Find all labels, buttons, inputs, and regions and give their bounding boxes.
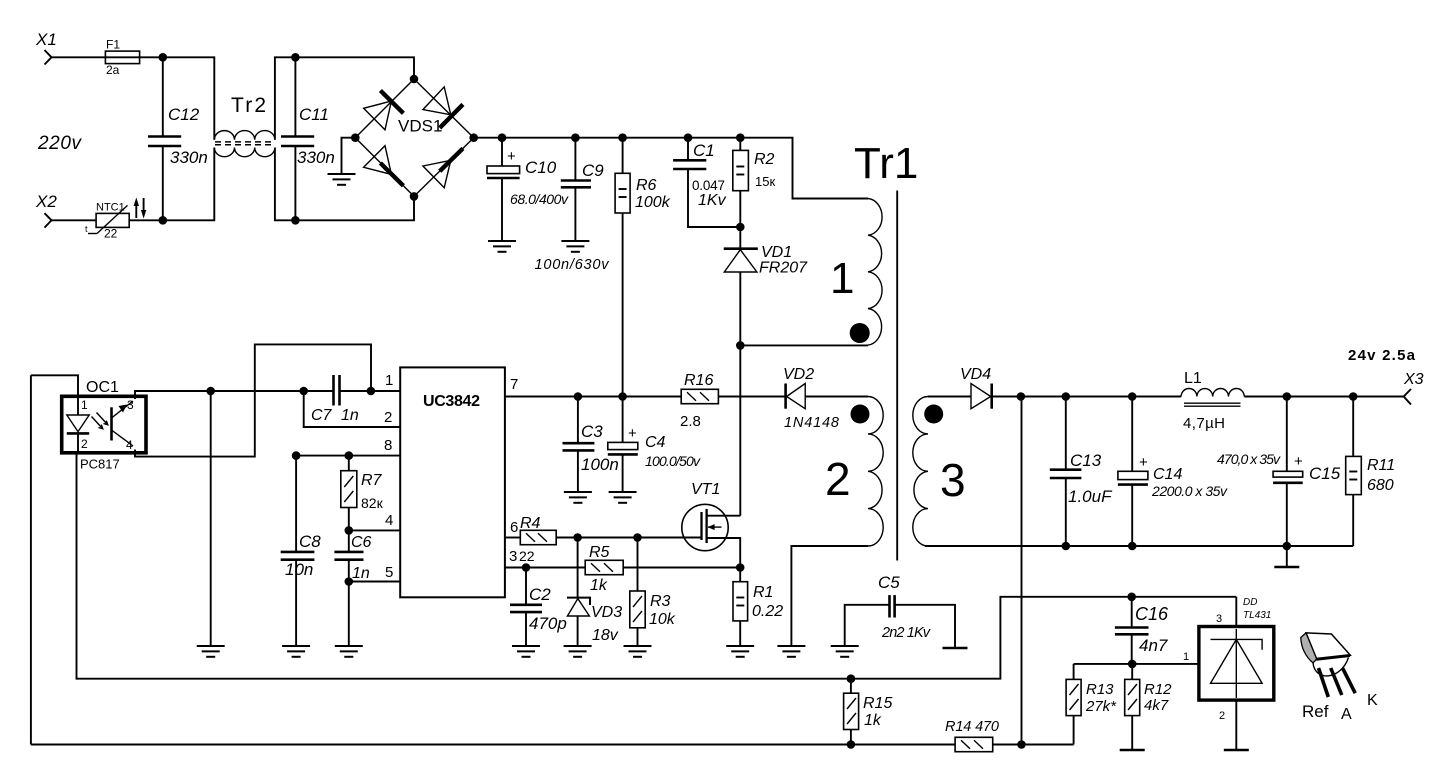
node junction bottom-left — [159, 216, 168, 225]
svg-text:4,7µH: 4,7µH — [1183, 415, 1225, 432]
node gate VD3 — [573, 533, 582, 542]
svg-text:+: + — [1139, 454, 1148, 471]
wire rail R6-C1 — [623, 137, 688, 139]
resistor R5 1k — [585, 544, 623, 594]
svg-text:2n2 1Kv: 2n2 1Kv — [881, 625, 931, 641]
node rail R6 — [618, 133, 627, 142]
svg-text:C14: C14 — [1153, 466, 1182, 483]
chassis ground (C5 secondary side) — [943, 647, 968, 649]
svg-text:18v: 18v — [592, 627, 619, 644]
svg-text:470p: 470p — [529, 614, 567, 633]
svg-text:DD: DD — [1243, 597, 1257, 608]
arrow down (mains variation mark) — [141, 198, 146, 219]
chassis ground (TL431) — [1224, 749, 1249, 751]
svg-text:R14 470: R14 470 — [945, 719, 999, 735]
thermistor NTC1 22 — [85, 202, 129, 241]
ground (R1) — [726, 646, 754, 657]
node pin8 R7 — [345, 451, 354, 460]
svg-text:R6: R6 — [636, 177, 657, 194]
wire bottom feedback line — [31, 744, 955, 746]
svg-text:VD2: VD2 — [783, 366, 814, 383]
svg-text:C5: C5 — [878, 573, 900, 592]
wire NTC to junction — [129, 219, 163, 221]
fuse F1 2a — [105, 38, 139, 78]
node C11 top — [291, 53, 300, 62]
svg-text:R15: R15 — [863, 695, 892, 712]
svg-text:F1: F1 — [106, 38, 120, 52]
ground (FB divider) — [197, 646, 225, 657]
ground (bridge left node) — [328, 174, 356, 185]
resistor R6 100k — [615, 138, 671, 213]
transformer Tr1 winding 2 — [868, 397, 883, 547]
svg-text:C4: C4 — [645, 434, 666, 451]
svg-text:VDS1: VDS1 — [398, 117, 442, 136]
svg-text:5: 5 — [385, 564, 393, 581]
bridge diode top-left — [364, 91, 404, 130]
node bridge right — [469, 133, 478, 142]
svg-text:FR207: FR207 — [759, 260, 808, 277]
svg-text:C10: C10 — [525, 158, 557, 177]
svg-text:R7: R7 — [361, 472, 383, 489]
OC1 phototransistor — [112, 401, 134, 446]
wire opto line to TL431 cathode — [851, 597, 1236, 679]
bridge diode bottom-left — [364, 146, 404, 186]
svg-text:100n: 100n — [581, 455, 619, 474]
winding 1 phasing dot — [850, 323, 870, 343]
diode VD1 FR207 — [724, 227, 808, 345]
svg-text:1: 1 — [830, 254, 854, 303]
svg-text:22: 22 — [519, 548, 535, 564]
node bottom rail C13 — [1062, 542, 1071, 551]
svg-text:10n: 10n — [285, 560, 313, 579]
optocoupler OC1 PC817 body — [62, 379, 146, 472]
svg-text:0.22: 0.22 — [752, 603, 783, 620]
node C7 right / pin1 — [367, 387, 376, 396]
node gate R3 — [633, 533, 642, 542]
wire pin5 line — [349, 581, 400, 583]
svg-text:R16: R16 — [684, 372, 713, 389]
svg-text:R2: R2 — [754, 151, 775, 168]
svg-text:C13: C13 — [1070, 451, 1102, 470]
node rail C9 — [571, 133, 580, 142]
node output rail VD4 — [1017, 392, 1026, 401]
node pin8 C8 — [292, 451, 301, 460]
svg-text:4: 4 — [385, 512, 393, 529]
svg-text:1Kv: 1Kv — [698, 192, 727, 209]
node feedback divider — [1017, 740, 1026, 749]
node junction top-left — [159, 53, 168, 62]
svg-text:C8: C8 — [299, 532, 321, 551]
wire Tr2 bottom right — [275, 148, 296, 221]
svg-text:2: 2 — [1219, 710, 1225, 722]
svg-text:27k*: 27k* — [1085, 698, 1117, 715]
svg-text:330n: 330n — [297, 148, 335, 167]
node rail C14 — [1128, 392, 1137, 401]
svg-text:K: K — [1367, 692, 1378, 709]
svg-text:2a: 2a — [106, 63, 120, 77]
svg-text:100k: 100k — [635, 194, 671, 211]
svg-text:1k: 1k — [864, 712, 882, 729]
wire Tr2 top right — [275, 57, 296, 140]
wire pin3 line — [505, 567, 585, 569]
wire drain vertical — [739, 345, 741, 515]
svg-text:15к: 15к — [755, 174, 775, 189]
node pin5 — [345, 577, 354, 586]
resistor R12 4k7 — [1125, 664, 1172, 749]
svg-text:VD3: VD3 — [591, 604, 622, 621]
node winding1 bottom — [736, 341, 745, 350]
capacitor C15 470,0x35v — [1217, 397, 1341, 547]
svg-text:C1: C1 — [693, 141, 715, 160]
svg-text:+: + — [507, 148, 516, 165]
node bridge left — [351, 133, 360, 142]
wire pin5 to ground — [348, 582, 350, 646]
TO-92 package drawing — [1301, 633, 1378, 723]
wire OC1 pin1 from left rail — [31, 375, 78, 396]
svg-text:100n/630v: 100n/630v — [535, 257, 610, 273]
svg-text:470,0 x 35v: 470,0 x 35v — [1217, 451, 1281, 467]
capacitor C3 100n — [563, 397, 619, 492]
resistor R15 1k — [844, 674, 893, 744]
svg-text:UC3842: UC3842 — [423, 393, 480, 410]
arrow up (mains variation mark) — [134, 198, 139, 219]
capacitor C14 2200.0x35v — [1118, 397, 1228, 547]
svg-text:68.0/400v: 68.0/400v — [510, 191, 569, 207]
svg-text:22: 22 — [104, 227, 118, 241]
svg-text:1.0uF: 1.0uF — [1068, 487, 1113, 506]
wire C11 to bridge bottom — [295, 196, 414, 220]
resistor R3 10k — [630, 538, 676, 646]
wire R5 to R1 node — [623, 567, 740, 569]
svg-text:+: + — [1294, 453, 1303, 470]
svg-text:VT1: VT1 — [691, 481, 720, 498]
node rail C10 — [498, 133, 507, 142]
node R15 bottom — [847, 740, 856, 749]
capacitor C10 68.0/400v — [487, 138, 569, 241]
wire pin4 line — [349, 529, 400, 531]
winding 3 phasing dot — [924, 405, 943, 424]
svg-text:1: 1 — [1183, 651, 1189, 663]
wire OC1 pin4 loop to pin1 — [135, 344, 371, 456]
svg-text:3: 3 — [509, 548, 517, 565]
svg-text:1: 1 — [385, 372, 393, 389]
wire X1 to fuse — [52, 56, 163, 58]
svg-text:3: 3 — [940, 454, 966, 506]
node rail C13 — [1062, 392, 1071, 401]
wire OC1 pin2 down — [77, 453, 851, 679]
svg-text:A: A — [1341, 706, 1352, 723]
wire pin6 line — [505, 537, 520, 539]
resistor R4 22 — [519, 515, 556, 564]
OC1 light arrows — [92, 413, 108, 429]
svg-text:4k7: 4k7 — [1144, 697, 1169, 714]
node pin7 C3 — [574, 392, 583, 401]
bridge diode bottom-right — [423, 148, 463, 187]
svg-text:2200.0 x 35v: 2200.0 x 35v — [1151, 483, 1228, 499]
wire X2 to NTC — [52, 219, 97, 221]
ground (pin5/C6) — [335, 646, 363, 657]
svg-text:R5: R5 — [589, 544, 610, 561]
ground (C5 primary side) — [831, 646, 859, 657]
node bridge top — [410, 75, 419, 84]
svg-text:Tr1: Tr1 — [854, 139, 918, 188]
svg-text:Tr2: Tr2 — [231, 94, 266, 117]
ground (winding 2) — [777, 646, 805, 657]
wire OC1 pin3 to UC3842 pin1 — [135, 391, 334, 399]
svg-text:1n: 1n — [341, 407, 359, 424]
svg-text:R12: R12 — [1144, 681, 1172, 698]
svg-text:1n: 1n — [352, 565, 370, 582]
node rail R2 — [736, 133, 745, 142]
inductor L1 4,7uH — [1181, 370, 1244, 432]
wire pin7 line — [505, 396, 681, 398]
node rail C15 — [1283, 392, 1292, 401]
node pin3 C2 — [522, 563, 531, 572]
svg-text:8: 8 — [384, 437, 392, 454]
wire TL431 anode to ground — [1235, 700, 1237, 749]
capacitor C6 1n — [334, 530, 371, 582]
capacitor C1 0.047 1Kv — [673, 138, 740, 227]
svg-text:Ref: Ref — [1302, 702, 1329, 721]
resistor R13 27k* — [1066, 664, 1117, 745]
svg-text:4n7: 4n7 — [1139, 636, 1168, 655]
svg-text:2: 2 — [825, 453, 851, 505]
resistor R14 470 — [945, 719, 999, 752]
wire bridge left to ground — [342, 138, 356, 174]
svg-text:NTC1: NTC1 — [96, 202, 125, 214]
node ref line R12 — [1128, 660, 1137, 669]
svg-text:3: 3 — [1216, 613, 1222, 625]
resistor R7 82k — [341, 456, 384, 531]
wire VD4 node feedback vertical — [1021, 397, 1023, 745]
svg-text:680: 680 — [1367, 477, 1394, 494]
node pin4 C6 — [345, 526, 354, 535]
ground (R3) — [624, 646, 652, 657]
svg-text:C3: C3 — [581, 422, 603, 441]
wire winding1 bottom — [740, 344, 868, 346]
node bridge bottom — [410, 192, 419, 201]
svg-text:C16: C16 — [1135, 604, 1169, 624]
ground (C10) — [488, 241, 516, 252]
wire winding2 bottom to ground — [791, 546, 868, 645]
wire rail C1-R2 — [688, 137, 740, 139]
wire rail to Tr1 winding1 — [740, 138, 868, 199]
zener VD3 18v — [567, 538, 622, 646]
capacitor C9 100n/630v — [535, 138, 610, 273]
wire TL431 ref line — [1074, 663, 1199, 665]
svg-text:+: + — [628, 425, 637, 442]
wire left feedback vertical — [30, 375, 32, 744]
diode VD4 — [928, 366, 1021, 409]
svg-text:OC1: OC1 — [86, 379, 119, 396]
svg-text:TL431: TL431 — [1243, 610, 1271, 621]
capacitor C11 330n — [281, 57, 335, 220]
svg-text:C2: C2 — [529, 585, 551, 604]
svg-text:82к: 82к — [361, 495, 384, 511]
svg-text:C12: C12 — [168, 105, 200, 124]
resistor R2 15k — [733, 138, 776, 227]
node C11 bottom — [291, 216, 300, 225]
resistor R1 0.22 — [733, 568, 783, 646]
wire rail C9-R6 — [575, 137, 622, 139]
ground (C4) — [609, 492, 637, 503]
wire pin2 loop — [304, 391, 401, 427]
choke Tr2 core — [215, 142, 274, 145]
svg-text:6: 6 — [510, 519, 518, 536]
choke Tr2 bottom winding — [214, 148, 275, 157]
wire output rail — [1021, 396, 1181, 398]
node R1 top — [736, 563, 745, 572]
svg-text:X2: X2 — [35, 192, 57, 211]
svg-text:10k: 10k — [649, 611, 676, 628]
svg-text:7: 7 — [510, 376, 518, 393]
svg-text:R11: R11 — [1367, 457, 1395, 474]
wire R6 down to pin7 line — [622, 213, 624, 397]
IC UC3842 — [384, 367, 518, 597]
wire C11 to bridge top — [295, 57, 414, 79]
wire rail L1 to X3 — [1244, 396, 1403, 398]
svg-text:C9: C9 — [582, 161, 604, 180]
node bottom rail C14 — [1128, 542, 1137, 551]
wire bottom to Tr2 — [163, 148, 215, 221]
capacitor C4 100.0/50v — [608, 397, 701, 492]
wire rail C10-C9 — [502, 137, 575, 139]
OC1 LED — [67, 396, 89, 453]
capacitor C2 470p — [510, 568, 567, 646]
svg-text:2: 2 — [81, 437, 88, 451]
svg-text:0.047: 0.047 — [692, 178, 725, 193]
svg-text:1k: 1k — [590, 577, 608, 594]
terminal X3 — [1403, 371, 1424, 405]
node bottom rail C15 — [1283, 542, 1292, 551]
wire R16 to VD2 — [718, 396, 785, 398]
transformer Tr1 winding 3 — [913, 397, 928, 547]
ground (C3) — [564, 492, 592, 503]
chassis ground (output) — [1274, 566, 1299, 568]
svg-text:C15: C15 — [1309, 464, 1341, 483]
svg-text:R3: R3 — [650, 593, 671, 610]
node rail C1 — [684, 133, 693, 142]
resistor R11 680 — [1346, 397, 1395, 547]
svg-text:C7: C7 — [311, 407, 333, 424]
IC DD TL431 — [1183, 597, 1274, 722]
bridge rectifier VDS1 frame — [355, 79, 473, 196]
ground (C2) — [512, 646, 540, 657]
wire R14 to node — [993, 744, 1074, 746]
node C16 top — [1127, 593, 1136, 602]
svg-text:R13: R13 — [1086, 681, 1114, 698]
node pin7 C4 — [618, 392, 627, 401]
capacitor C8 10n — [281, 456, 322, 645]
bridge diode top-right — [423, 87, 463, 128]
capacitor C7 1n — [311, 375, 400, 424]
transistor VT1 — [682, 481, 741, 568]
ground (C8) — [282, 646, 310, 657]
chassis ground (R12) — [1120, 749, 1145, 751]
transformer Tr1 core — [896, 191, 898, 561]
node C7 left — [299, 387, 308, 396]
transformer Tr1 winding 1 — [868, 199, 882, 346]
wire R4 to gate — [556, 537, 701, 539]
wire output bottom rail — [925, 545, 1353, 547]
wire bridge right to rail — [474, 137, 502, 139]
capacitor C13 1.0uF — [1050, 397, 1113, 547]
svg-text:VD1: VD1 — [761, 244, 792, 261]
node snubber top — [736, 223, 745, 232]
svg-text:1N4148: 1N4148 — [784, 415, 839, 431]
svg-text:C11: C11 — [299, 105, 329, 124]
node FB line left — [206, 387, 215, 396]
capacitor C16 4n7 — [1115, 597, 1169, 664]
svg-text:X3: X3 — [1403, 371, 1424, 388]
svg-text:L1: L1 — [1184, 370, 1202, 387]
svg-text:220v: 220v — [37, 133, 83, 154]
capacitor C12 330n — [148, 57, 208, 220]
svg-text:100.0/50v: 100.0/50v — [645, 453, 701, 469]
svg-text:X1: X1 — [35, 30, 57, 49]
capacitor C5 2n2 1Kv — [845, 573, 955, 647]
svg-text:1: 1 — [81, 398, 88, 412]
ground (C9) — [561, 241, 589, 252]
choke Tr2 top winding — [214, 131, 275, 140]
wire top to Tr2 — [163, 57, 215, 140]
winding 2 phasing dot — [851, 405, 870, 424]
wire C15 node to ground — [1286, 546, 1288, 566]
ground (VD3) — [564, 646, 592, 657]
svg-text:2: 2 — [384, 409, 392, 426]
svg-text:R4: R4 — [520, 515, 541, 532]
svg-text:R1: R1 — [753, 584, 773, 601]
node rail R11 — [1349, 392, 1358, 401]
resistor R16 2.8 — [680, 372, 718, 430]
svg-text:C6: C6 — [351, 534, 372, 551]
terminal X1 — [35, 30, 57, 65]
wire FB node to ground — [210, 391, 212, 645]
wire pin8 line — [296, 455, 400, 457]
svg-text:PC817: PC817 — [80, 457, 120, 472]
svg-text:VD4: VD4 — [960, 366, 991, 383]
svg-text:2.8: 2.8 — [680, 413, 701, 430]
terminal X2 — [35, 192, 57, 228]
svg-text:330n: 330n — [170, 148, 208, 167]
diode VD2 1N4148 — [783, 366, 868, 431]
